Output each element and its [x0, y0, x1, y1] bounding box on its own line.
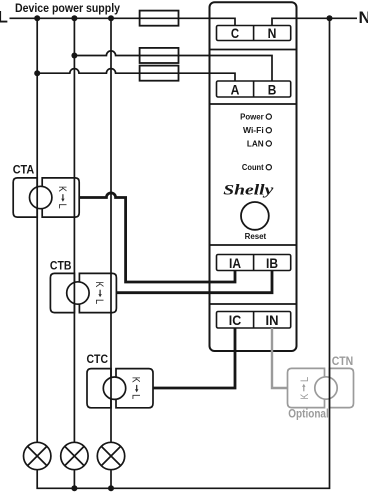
CTC K-L marking	[130, 377, 142, 400]
wire phase branch 1 (through CTA to lamp 1)	[36, 18, 38, 441]
svg-text:Wi-Fi: Wi-Fi	[243, 126, 264, 135]
svg-text:CTA: CTA	[13, 165, 35, 177]
svg-text:Reset: Reset	[245, 232, 267, 241]
svg-text:Optional: Optional	[288, 409, 329, 421]
svg-text:B: B	[268, 81, 277, 97]
current transformer CTA body	[13, 178, 79, 217]
svg-text:A: A	[231, 81, 240, 97]
wire lamp 2 to neutral	[73, 470, 75, 488]
svg-text:N: N	[359, 8, 368, 27]
section divider 3	[210, 244, 297, 246]
svg-text:CTB: CTB	[50, 260, 72, 272]
junction dot branch 2 tap	[71, 53, 77, 59]
svg-text:K: K	[130, 377, 142, 383]
wire CTA secondary to terminal IA	[79, 193, 235, 282]
section divider 2	[210, 103, 297, 105]
junction dot L branch 1	[34, 15, 40, 21]
current transformer CTB body	[50, 273, 116, 312]
wire CTC secondary to terminal IC	[153, 328, 235, 388]
svg-text:K: K	[93, 282, 105, 288]
svg-text:Shelly: Shelly	[223, 183, 273, 199]
wire branch 1 to fuse F3 to terminal A	[37, 69, 235, 81]
fuse F2	[140, 48, 179, 63]
svg-text:K: K	[299, 393, 311, 399]
junction dot N branch	[327, 15, 333, 21]
terminal block IC/IN	[217, 312, 291, 329]
LED Count	[266, 165, 271, 170]
wire CTB secondary to terminal IB	[116, 271, 272, 293]
svg-text:IC: IC	[229, 312, 241, 328]
junction dot lamp 3 neutral	[108, 485, 114, 491]
svg-text:C: C	[231, 25, 239, 41]
current transformer CTC body	[87, 369, 153, 408]
terminal block IA/IB	[217, 255, 291, 271]
wire CTN secondary to terminal IN (grey)	[272, 328, 288, 388]
section divider 1	[210, 49, 297, 51]
svg-text:Power: Power	[240, 112, 264, 121]
svg-text:L: L	[93, 299, 105, 304]
svg-text:L: L	[130, 394, 142, 399]
LED Wi-Fi	[266, 128, 271, 133]
svg-text:L: L	[0, 8, 8, 27]
current transformer CTN body (optional, grey)	[288, 368, 354, 407]
wire phase branch 2 (through CTB to lamp 2)	[73, 18, 75, 441]
svg-text:CTC: CTC	[87, 354, 109, 366]
wire lamp 3 to neutral	[110, 470, 112, 488]
fuse F1	[140, 11, 179, 26]
svg-text:L: L	[56, 203, 68, 208]
wire branch 2 to fuse F2 to terminal B	[74, 51, 272, 81]
fuse F3	[140, 66, 179, 81]
section divider 4	[210, 303, 297, 305]
junction dot L branch 2	[71, 15, 77, 21]
wire neutral return (N down right side and along bottom)	[37, 18, 329, 488]
CTA K-L marking	[56, 186, 68, 209]
svg-text:L: L	[299, 377, 311, 382]
svg-text:Device power supply: Device power supply	[15, 3, 121, 15]
wire phase branch 3 (through CTC to lamp 3)	[110, 18, 112, 441]
svg-text:IA: IA	[229, 255, 241, 271]
junction dot lamp 2 neutral	[71, 485, 77, 491]
terminal block C/N	[217, 26, 291, 41]
svg-text:Count: Count	[242, 163, 264, 172]
svg-text:IB: IB	[266, 255, 278, 271]
CTN K-L marking	[299, 377, 311, 400]
LED LAN	[266, 141, 271, 146]
svg-text:CTN: CTN	[332, 356, 354, 368]
svg-text:N: N	[268, 25, 277, 41]
junction dot L branch 3	[108, 15, 114, 21]
svg-text:LAN: LAN	[247, 139, 264, 148]
terminal block A/B	[217, 81, 291, 97]
wire L to terminal C	[10, 18, 236, 25]
device body U1 (Shelly energy meter)	[210, 2, 297, 351]
junction dot branch 1 tap	[34, 70, 40, 76]
LED Power	[266, 114, 271, 119]
reset button	[241, 202, 269, 230]
wire terminal N to N line	[272, 18, 357, 25]
svg-text:IN: IN	[266, 312, 279, 328]
lamp E3	[97, 442, 124, 469]
svg-text:K: K	[56, 186, 68, 192]
CTB K-L marking	[93, 282, 105, 305]
lamp E2	[61, 442, 88, 469]
lamp E1	[24, 442, 51, 469]
